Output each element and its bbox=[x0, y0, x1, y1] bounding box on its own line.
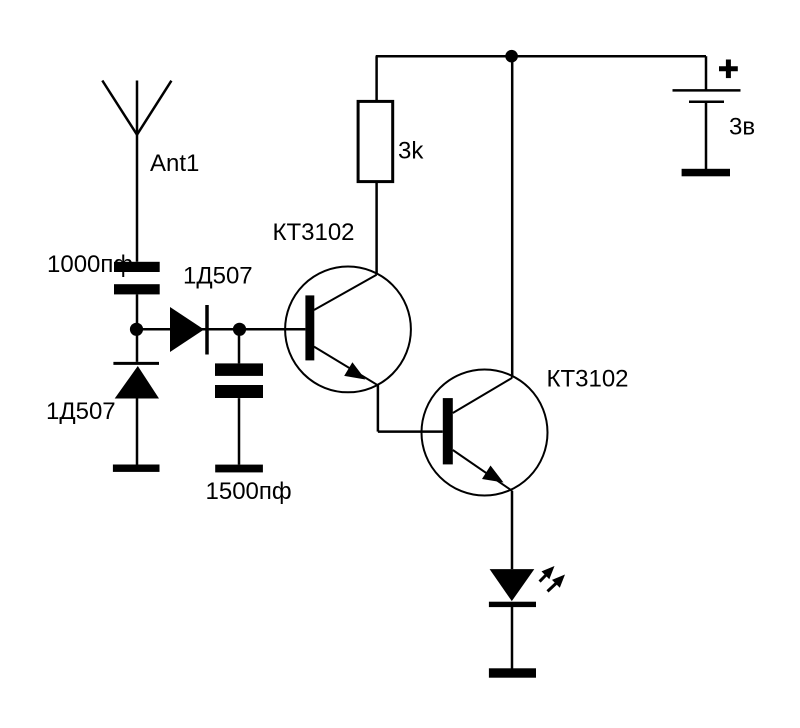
svg-text:3в: 3в bbox=[729, 113, 755, 140]
svg-text:КТ3102: КТ3102 bbox=[547, 366, 629, 393]
svg-text:Ant1: Ant1 bbox=[150, 150, 199, 177]
svg-text:1500пф: 1500пф bbox=[206, 478, 292, 505]
svg-text:1Д507: 1Д507 bbox=[46, 398, 116, 425]
svg-text:1Д507: 1Д507 bbox=[183, 263, 253, 290]
svg-text:КТ3102: КТ3102 bbox=[273, 219, 355, 246]
svg-text:3k: 3k bbox=[398, 138, 424, 165]
svg-text:1000пф: 1000пф bbox=[47, 251, 133, 278]
